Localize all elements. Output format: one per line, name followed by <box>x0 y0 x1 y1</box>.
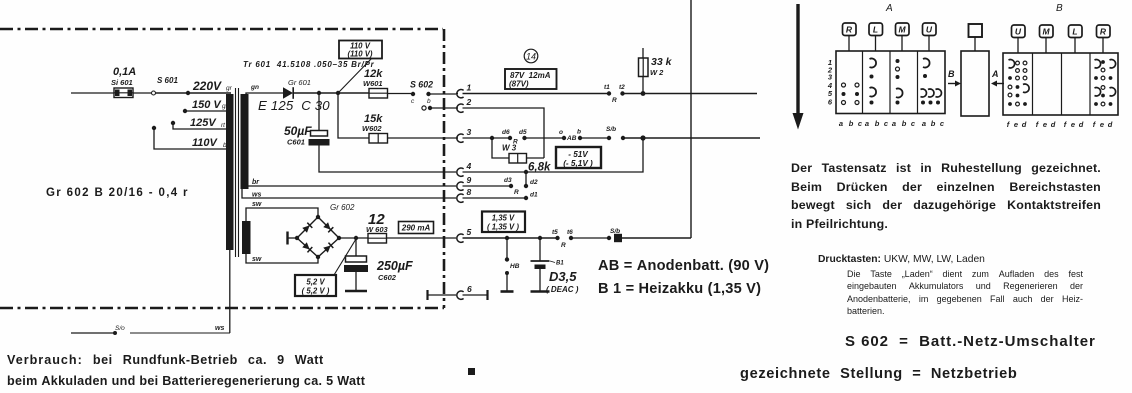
wire row8 to d1 <box>463 197 527 199</box>
wire W603 to contact 5 <box>387 237 457 239</box>
chassis border dash-dot top <box>0 28 443 31</box>
transformer core <box>236 88 239 257</box>
svg-text:S/b: S/b <box>606 126 616 133</box>
note Tastensatz paragraph <box>791 159 1101 233</box>
svg-text:(110 V): (110 V) <box>348 50 373 59</box>
svg-text:Tr 601 41.5108 .050–35 Br/Pr: Tr 601 41.5108 .050–35 Br/Pr <box>243 60 375 69</box>
wire b to S/b <box>580 137 609 139</box>
svg-text:L: L <box>1072 27 1077 37</box>
svg-text:W 603: W 603 <box>366 225 389 234</box>
contact t1 <box>604 84 611 96</box>
svg-text:f: f <box>1007 120 1011 129</box>
svg-text:S 601: S 601 <box>157 76 178 85</box>
button L <box>869 23 883 51</box>
svg-text:c: c <box>411 98 415 105</box>
svg-text:b: b <box>875 119 880 128</box>
wire sw upper to bridge <box>246 208 318 221</box>
svg-text:L: L <box>873 25 878 35</box>
direction arrow down <box>793 4 804 130</box>
contact d3 <box>504 177 513 188</box>
closed contact S/b square <box>614 234 622 242</box>
svg-text:f: f <box>1036 120 1040 129</box>
rectifier Gr601 <box>283 78 311 99</box>
svg-text:U: U <box>926 25 933 35</box>
node cap tap <box>317 91 321 95</box>
leader line to 5,2V box <box>334 239 356 275</box>
note S602 equation <box>845 333 1096 350</box>
svg-text:C602: C602 <box>378 273 397 282</box>
svg-text:4: 4 <box>466 161 472 171</box>
svg-text:f: f <box>1093 120 1097 129</box>
svg-text:d: d <box>1051 120 1056 129</box>
svg-text:(87V): (87V) <box>509 80 529 89</box>
row numbers 1-6 <box>827 58 833 107</box>
svg-text:e: e <box>1071 120 1075 129</box>
transformer Tr601 primary winding <box>226 94 234 250</box>
node HB tap <box>505 236 509 240</box>
wire row1 left segment <box>463 93 610 95</box>
svg-text:A: A <box>885 3 893 14</box>
wire bridge output <box>339 237 368 239</box>
svg-text:b: b <box>931 119 936 128</box>
wire row3 right segment <box>623 137 760 139</box>
node 110V box tap <box>336 91 340 95</box>
svg-text:8: 8 <box>467 187 472 197</box>
svg-text:b: b <box>427 98 431 105</box>
wire fuse to S601 <box>133 92 151 94</box>
capacitor C602 250uF <box>344 238 413 291</box>
svg-text:o: o <box>559 129 563 136</box>
svg-text:5: 5 <box>467 227 472 237</box>
svg-text:33 k: 33 k <box>651 56 673 68</box>
svg-text:d: d <box>1108 120 1113 129</box>
svg-text:Gr 602: Gr 602 <box>330 203 355 212</box>
note Verbrauch line 1 <box>7 353 324 367</box>
wire mains input <box>71 92 114 94</box>
contact t2 <box>619 84 625 96</box>
note B1 equation <box>598 281 761 297</box>
svg-text:a: a <box>865 119 869 128</box>
plug HB <box>501 238 520 292</box>
column labels fed block B <box>1007 120 1113 129</box>
svg-text:c: c <box>858 119 863 128</box>
svg-text:d5: d5 <box>519 129 527 136</box>
node row4 d2 tap <box>524 170 528 174</box>
svg-text:d3: d3 <box>504 177 512 184</box>
note AB equation <box>598 258 769 274</box>
svg-text:rt: rt <box>221 122 226 129</box>
svg-text:W602: W602 <box>362 124 382 133</box>
contact pattern column R <box>842 83 860 105</box>
svg-text:(- 5,1V ): (- 5,1V ) <box>563 159 593 168</box>
contact d2 <box>524 172 538 188</box>
bridge rectifier Gr602 <box>295 203 355 259</box>
wire gn from secondary to rectifier <box>246 93 283 95</box>
svg-text:Gr 601: Gr 601 <box>288 78 311 87</box>
voltage box 5,2V <box>295 275 336 296</box>
contact t6 <box>567 229 573 240</box>
svg-text:c: c <box>940 119 945 128</box>
switch S/o in primary return <box>71 325 230 335</box>
svg-text:110V: 110V <box>192 137 219 149</box>
connector contact 6 <box>457 284 472 299</box>
transformer secondary lower winding <box>242 221 251 254</box>
contact S/b right row3 <box>621 136 625 140</box>
svg-text:b: b <box>902 119 907 128</box>
contact pattern column L <box>870 58 877 104</box>
contact o <box>559 129 566 140</box>
svg-text:B: B <box>1056 3 1063 14</box>
keyboard block B <box>1003 53 1118 115</box>
svg-text:W 2: W 2 <box>650 68 664 77</box>
svg-text:b: b <box>849 119 854 128</box>
svg-text:( 1,35 V ): ( 1,35 V ) <box>487 223 519 232</box>
wire sw lower to bridge <box>246 254 318 263</box>
contact d6 <box>502 129 512 140</box>
svg-text:W601: W601 <box>363 79 383 88</box>
svg-text:gr: gr <box>226 85 233 92</box>
svg-text:d: d <box>1022 120 1027 129</box>
svg-text:3: 3 <box>467 127 472 137</box>
svg-text:R: R <box>1100 27 1107 37</box>
svg-text:br: br <box>252 179 260 186</box>
note gezeichnete Stellung <box>740 366 1017 382</box>
svg-text:AB: AB <box>566 135 577 142</box>
svg-text:d1: d1 <box>530 192 538 199</box>
switch S602 <box>410 80 433 111</box>
wire row5 left segment <box>463 237 558 239</box>
fuse Si601 0,1A <box>111 66 136 98</box>
svg-text:5,2 V: 5,2 V <box>306 278 325 287</box>
node 220V tap <box>186 79 233 95</box>
svg-text:R: R <box>612 97 617 104</box>
svg-text:250µF: 250µF <box>376 259 413 273</box>
resistor W601 12k <box>363 68 388 98</box>
contact pattern block B column U <box>1008 60 1029 106</box>
node 125V tap <box>171 117 227 129</box>
contact t5 <box>552 229 560 240</box>
svg-text:2: 2 <box>466 97 472 107</box>
svg-text:t5: t5 <box>552 229 558 236</box>
wire W602 to contact 3 <box>388 137 457 139</box>
svg-text:b: b <box>577 129 581 136</box>
chassis border dash-dot right vertical <box>443 29 446 308</box>
node 150V tap <box>183 99 230 113</box>
svg-text:A: A <box>991 69 999 79</box>
svg-text:a: a <box>892 119 896 128</box>
svg-text:t1: t1 <box>604 84 610 91</box>
keyboard block A <box>836 51 945 114</box>
svg-text:S/o: S/o <box>115 325 125 332</box>
bridge minus stub connector <box>288 232 298 245</box>
contact S/b row5 <box>607 228 620 240</box>
contact pattern column U <box>921 58 942 104</box>
wire rectifier output <box>293 92 369 94</box>
voltage box -5,1V <box>556 147 601 168</box>
coupling slider box <box>961 24 989 116</box>
svg-text:e: e <box>1043 120 1047 129</box>
svg-text:9: 9 <box>467 175 472 185</box>
button U <box>923 23 937 51</box>
svg-text:t2: t2 <box>619 84 625 91</box>
contact pattern block B column R <box>1094 60 1115 106</box>
chassis border dash-dot bottom <box>0 307 444 310</box>
contact d1 <box>524 192 538 201</box>
wire cap bottom to contact 4 <box>319 146 456 173</box>
svg-text:gn: gn <box>250 84 259 91</box>
svg-text:- 51V: - 51V <box>568 150 589 159</box>
svg-text:6: 6 <box>828 98 833 107</box>
capacitor C601 50uF <box>284 93 330 147</box>
resistor W602 15k <box>362 113 388 143</box>
connector contact 3 <box>456 127 472 142</box>
svg-text:M: M <box>1042 27 1050 37</box>
contact 6 stub right <box>463 290 488 300</box>
note Laden paragraph <box>847 268 1083 318</box>
contact b row3 <box>577 129 582 141</box>
svg-text:e: e <box>1100 120 1104 129</box>
svg-text:R: R <box>561 242 566 249</box>
svg-text:ws: ws <box>252 192 261 199</box>
svg-text:sw: sw <box>252 201 262 208</box>
svg-text:0,1A: 0,1A <box>113 66 136 78</box>
button R block B <box>1097 25 1111 53</box>
button U block B <box>1012 25 1026 53</box>
wire row3 left segment <box>463 137 511 139</box>
connector contact 5 <box>457 227 472 242</box>
wire d5 to contact o <box>525 137 565 139</box>
resistor W3 6,8k <box>492 138 551 174</box>
svg-text:220V: 220V <box>192 79 222 93</box>
wire row4 right segment <box>463 138 644 172</box>
svg-text:d: d <box>1079 120 1084 129</box>
wire row2 to junction with row3 <box>463 108 545 158</box>
svg-text:D3,5: D3,5 <box>549 269 577 284</box>
svg-text:50µF: 50µF <box>284 124 312 138</box>
svg-text:sw: sw <box>252 256 262 263</box>
svg-text:a: a <box>839 119 843 128</box>
svg-text:U: U <box>1015 27 1022 37</box>
wire row5 right to riser <box>622 237 691 239</box>
connector contact 2 <box>456 97 472 112</box>
battery B1 D3,5 DEAC <box>531 238 579 294</box>
svg-text:C601: C601 <box>287 138 305 147</box>
svg-text:e: e <box>1014 120 1018 129</box>
svg-text:d6: d6 <box>502 129 510 136</box>
svg-text:c: c <box>884 119 889 128</box>
button R <box>843 23 857 51</box>
wire br from secondary <box>248 185 456 187</box>
printer mark square <box>468 368 475 375</box>
svg-text:f: f <box>1064 120 1068 129</box>
connector contact 4 <box>457 161 472 176</box>
svg-text:( DEAC ): ( DEAC ) <box>546 285 579 294</box>
connector contact 1 <box>456 83 472 98</box>
leader line to 110V box <box>339 58 372 92</box>
svg-text:B: B <box>948 69 955 79</box>
svg-text:HB: HB <box>510 263 520 270</box>
svg-text:t6: t6 <box>567 229 573 236</box>
measure box 87V <box>505 69 557 89</box>
wire t6 to S/b <box>571 237 609 239</box>
node bridge output <box>354 236 358 240</box>
resistor W603 12 <box>366 211 389 243</box>
svg-text:B1: B1 <box>556 261 564 267</box>
contact S/b row3 <box>606 126 616 140</box>
node row1 <box>641 91 646 96</box>
svg-text:d2: d2 <box>530 179 538 186</box>
button M <box>896 23 910 51</box>
svg-text:c: c <box>911 119 916 128</box>
label A with arrow <box>991 69 1004 87</box>
wire row1 right segment <box>623 93 758 95</box>
label B with arrow <box>948 69 961 87</box>
svg-text:R: R <box>846 25 853 35</box>
wire primary return down <box>229 250 231 333</box>
contact 6 stub left <box>428 290 457 300</box>
connector contact 8 <box>457 187 472 202</box>
svg-text:S 602: S 602 <box>410 80 433 90</box>
svg-text:1,35 V: 1,35 V <box>492 214 515 223</box>
button L block B <box>1069 25 1083 53</box>
current box 290mA <box>399 222 434 234</box>
svg-text:M: M <box>898 25 906 35</box>
label Gr602 type <box>46 187 189 199</box>
transformer secondary upper winding <box>241 94 249 189</box>
switch S601 <box>152 76 189 95</box>
wire ws from secondary <box>242 189 456 198</box>
svg-text:a: a <box>922 119 926 128</box>
resistor W2 33k <box>639 48 673 94</box>
note Verbrauch line 2 <box>7 374 365 388</box>
svg-text:1: 1 <box>467 83 472 93</box>
contact d5 <box>519 129 527 140</box>
svg-text:( 5,2 V ): ( 5,2 V ) <box>302 287 330 296</box>
svg-text:14: 14 <box>526 52 536 62</box>
node 110V tap <box>152 126 229 149</box>
sheet reference 14 <box>524 49 538 63</box>
svg-text:R: R <box>514 189 519 196</box>
column labels abc block A <box>839 119 945 128</box>
svg-text:150 V: 150 V <box>192 99 222 111</box>
wire a to contact 2 <box>431 107 456 109</box>
svg-text:ws: ws <box>215 325 224 332</box>
voltage box 1,35V <box>482 212 525 233</box>
svg-text:6: 6 <box>467 284 472 294</box>
connector contact 9 <box>457 175 472 190</box>
svg-text:W 3: W 3 <box>502 144 517 153</box>
wire W601 to S602 <box>388 93 412 95</box>
contact pattern column M <box>896 59 903 105</box>
node W3 tap <box>490 136 494 140</box>
button M block B <box>1040 25 1054 53</box>
node row3 <box>640 135 645 140</box>
note Drucktasten heading <box>818 254 985 265</box>
wire battery riser <box>690 0 692 238</box>
svg-text:125V: 125V <box>190 117 217 129</box>
svg-text:290 mA: 290 mA <box>401 224 431 233</box>
wire row9 to d3 <box>463 185 512 187</box>
node battery tap <box>538 236 542 240</box>
voltage box 110V <box>339 41 382 59</box>
wire b to contact 1 <box>429 93 457 95</box>
wire 15k branch vertical <box>338 93 369 138</box>
svg-text:Si 601: Si 601 <box>111 78 133 87</box>
